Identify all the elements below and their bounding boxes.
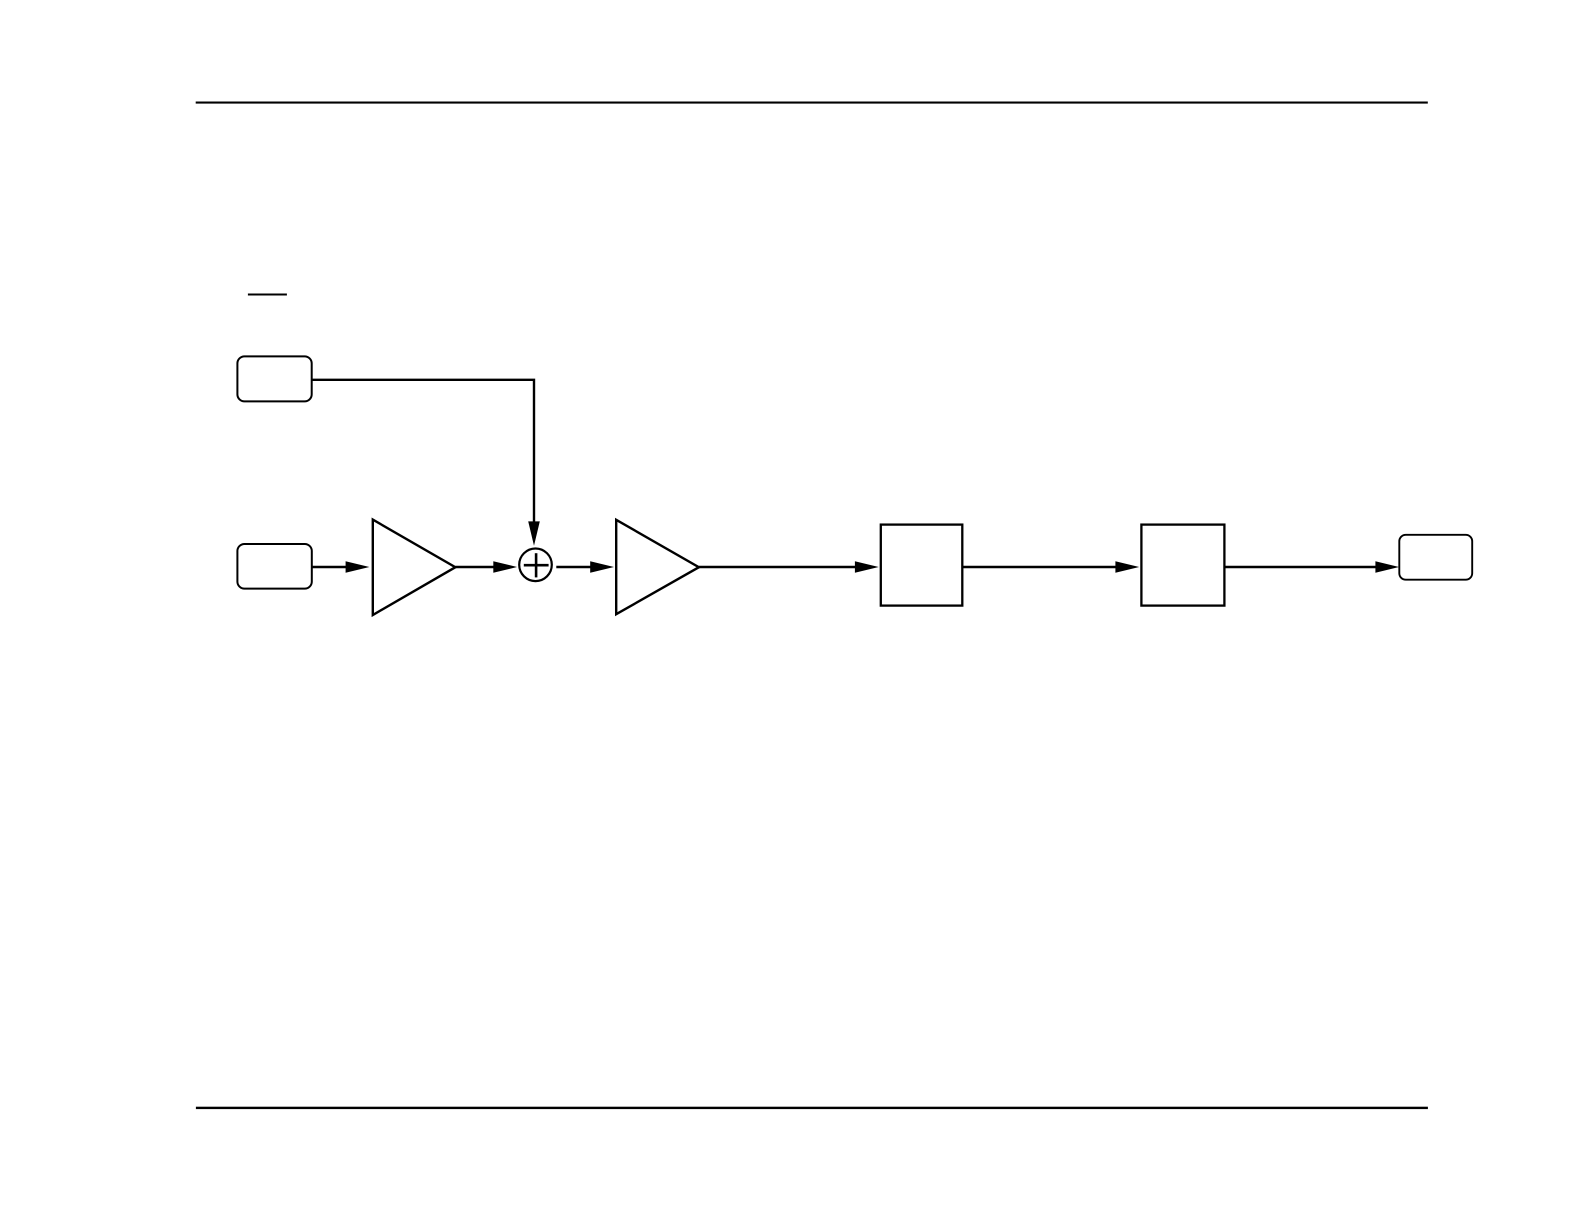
arrowhead into summing junction top [528, 521, 540, 545]
block B1 (top-left rounded source block) [237, 356, 311, 401]
amplifier A2 (gain triangle) [616, 520, 699, 614]
wire from amplifier A1 to summing junction [455, 566, 494, 568]
wire from summing junction to amplifier A2 [556, 566, 591, 568]
heading underline mark [248, 294, 287, 296]
arrowhead into block F2 [1115, 561, 1139, 573]
arrowhead into summing junction left [493, 561, 517, 573]
summing junction S1 (circle with plus) [519, 549, 552, 582]
block F1 (square filter block) [881, 525, 963, 606]
arrowhead into block B3 [1375, 561, 1399, 573]
footer rule [196, 1107, 1428, 1109]
arrowhead into block F1 [855, 561, 879, 573]
amplifier A1 (gain triangle) [373, 520, 456, 615]
wire from block F2 to block B3 [1224, 566, 1376, 568]
block B2 (bottom-left rounded input block) [237, 544, 311, 589]
wire from block B2 to amplifier A1 [312, 566, 347, 568]
arrowhead into amplifier A1 [346, 561, 370, 573]
wire from block F1 to block F2 [962, 566, 1116, 568]
wire from block B1 to summing junction (horizontal then vertical) [312, 380, 534, 523]
wire from amplifier A2 to block F1 [699, 566, 856, 568]
block F2 (square filter block) [1141, 525, 1224, 606]
arrowhead into amplifier A2 [590, 561, 614, 573]
block B3 (right rounded output block) [1399, 535, 1472, 580]
header rule [196, 102, 1428, 104]
